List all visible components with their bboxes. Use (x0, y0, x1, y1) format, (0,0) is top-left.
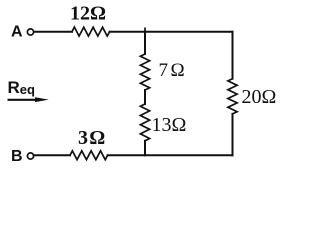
wire R1 to top-right corner (110, 31, 233, 33)
wire middle branch upper (144, 32, 146, 54)
node junction tick top middle (144, 28, 146, 31)
wire R5 to bottom-right corner (108, 154, 233, 156)
resistor R5 3ohm zigzag (70, 151, 108, 160)
node B terminal circle (27, 153, 33, 159)
arrow for Req (8, 97, 49, 102)
wire right branch upper (232, 32, 234, 79)
svg-text:3Ω: 3Ω (78, 127, 105, 149)
node A terminal circle (27, 29, 33, 35)
svg-text:B: B (11, 148, 23, 165)
resistor R1 12ohm zigzag (72, 27, 110, 36)
svg-text:12Ω: 12Ω (70, 3, 106, 25)
wire between 7ohm and 13ohm (144, 90, 146, 104)
resistor R3 13ohm zigzag (140, 104, 149, 141)
wire B to resistor R5 (34, 154, 70, 156)
wire A to resistor R1 (34, 31, 72, 33)
wire middle branch lower (144, 141, 146, 156)
svg-text:A: A (11, 24, 23, 41)
svg-text:7Ω: 7Ω (159, 60, 185, 81)
resistor R4 20ohm zigzag (228, 79, 237, 114)
resistor R2 7ohm zigzag (140, 54, 149, 90)
wire right branch lower (232, 114, 234, 155)
svg-text:20Ω: 20Ω (242, 86, 277, 108)
svg-text:13Ω: 13Ω (152, 114, 187, 136)
